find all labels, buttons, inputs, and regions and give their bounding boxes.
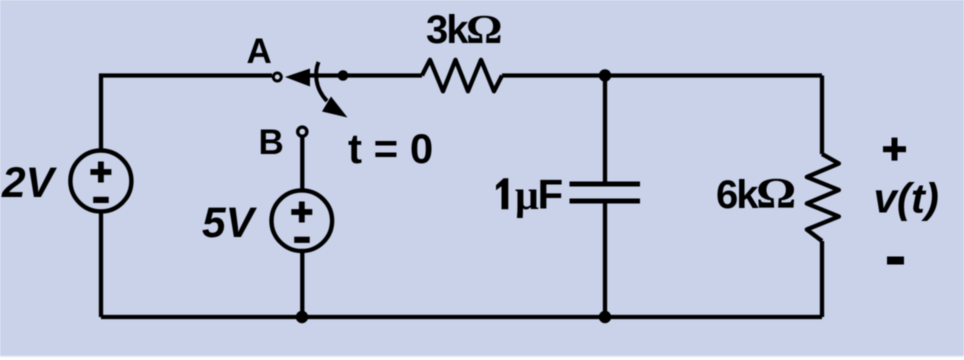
switch terminal node B (open circle)	[298, 127, 307, 136]
wire: 5V source bottom to bottom rail	[300, 250, 304, 317]
svg-text:B: B	[259, 123, 284, 162]
svg-text:6k: 6k	[716, 173, 759, 217]
V1 minus sign	[93, 197, 109, 203]
svg-text:t = 0: t = 0	[348, 125, 433, 172]
svg-text:F: F	[538, 171, 564, 218]
svg-text:5V: 5V	[202, 200, 258, 247]
wire: bottom rail	[101, 315, 822, 319]
V1 plus sign	[90, 162, 111, 183]
wire: top-left from node A to 2V source top	[101, 76, 272, 152]
wire: node B to 5V source top	[300, 138, 304, 192]
minus sign of v(t) polarity	[887, 257, 904, 265]
junction dot bottom under capacitor	[599, 311, 611, 323]
wire: capacitor branch bottom	[603, 201, 607, 317]
svg-text:Ω: Ω	[756, 170, 796, 218]
V2 plus sign	[291, 202, 312, 223]
switch motion arc	[316, 62, 327, 101]
wire: switch blade pivot to resistor R1 left lead	[303, 73, 422, 77]
capacitor C1 plates	[570, 184, 641, 201]
wire: resistor right lead to top-right corner	[502, 73, 822, 77]
plus sign of v(t) polarity	[883, 138, 906, 161]
label 1µF	[496, 178, 508, 209]
svg-text:2V: 2V	[1, 160, 58, 207]
V2 minus sign	[294, 237, 310, 243]
switch terminal node A (open circle)	[273, 73, 281, 81]
voltage source V1 2V circle	[70, 151, 131, 212]
svg-text:Ω: Ω	[466, 7, 502, 53]
switch pivot junction dot	[338, 70, 349, 81]
switch blade arrowhead pointing at A	[285, 69, 310, 87]
voltage source V2 5V circle	[272, 190, 333, 251]
resistor 6kΩ zigzag	[807, 154, 839, 241]
wire: 6k resistor bottom to bottom-right corner	[820, 241, 824, 317]
wire: top-right corner down to 6k resistor	[820, 76, 824, 155]
junction dot bottom under 5V	[296, 311, 308, 323]
svg-text:μ: μ	[515, 173, 539, 219]
junction dot top (cap/3k/6k node)	[599, 69, 611, 81]
resistor 3kΩ zigzag	[422, 60, 502, 92]
wire: 2V source bottom to bottom-left corner	[99, 212, 103, 318]
switch motion arrowhead	[322, 97, 348, 118]
svg-text:v(t): v(t)	[874, 175, 939, 222]
wire: capacitor branch top	[603, 76, 607, 185]
svg-text:A: A	[247, 32, 272, 71]
svg-text:3k: 3k	[426, 8, 469, 52]
